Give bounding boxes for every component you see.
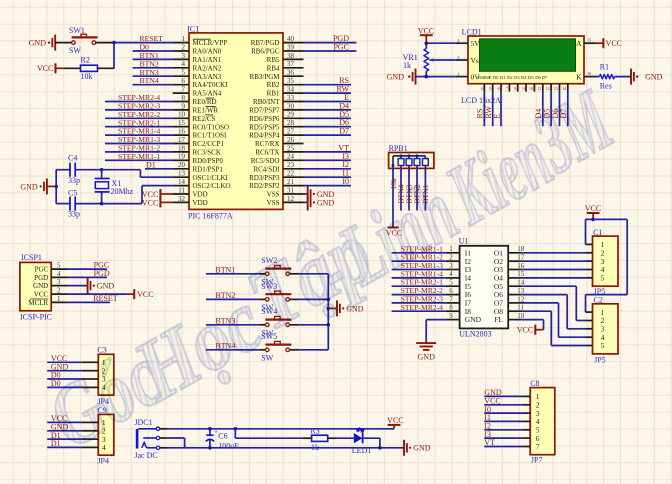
svg-text:3: 3 [449,262,453,270]
svg-text:7: 7 [449,295,453,303]
svg-text:1k: 1k [311,443,319,452]
svg-text:2: 2 [457,38,459,43]
svg-text:RC3/SCK: RC3/SCK [193,149,221,157]
svg-text:15: 15 [517,270,525,278]
svg-text:RB5: RB5 [267,56,280,64]
svg-text:RB3/PGM: RB3/PGM [250,73,281,81]
svg-text:GND: GND [20,182,38,191]
svg-text:VCC: VCC [137,290,153,299]
svg-text:GND: GND [33,282,48,290]
svg-text:JP7: JP7 [531,455,543,464]
svg-text:30: 30 [287,102,295,110]
svg-text:GND: GND [465,315,482,324]
svg-text:RA2/AN2: RA2/AN2 [193,64,222,72]
svg-text:D4: D4 [521,75,527,80]
svg-text:28: 28 [287,119,295,127]
svg-text:RB4: RB4 [267,64,280,72]
svg-text:29: 29 [287,111,295,119]
svg-text:6: 6 [182,77,186,85]
svg-text:RE2/CS: RE2/CS [193,115,216,123]
svg-text:34: 34 [287,86,295,94]
svg-text:36: 36 [287,69,295,77]
svg-text:RA3/AN3: RA3/AN3 [193,73,222,81]
svg-text:D6: D6 [535,75,541,80]
svg-text:D1: D1 [51,439,61,448]
svg-text:Res: Res [600,81,612,90]
svg-text:RC5/SDO: RC5/SDO [251,157,280,165]
svg-text:2: 2 [182,43,186,51]
svg-text:22: 22 [287,170,295,178]
svg-text:33p: 33p [68,210,80,219]
svg-text:E: E [492,114,501,119]
svg-text:E: E [489,75,492,80]
svg-text:100uF: 100uF [218,442,239,451]
svg-text:RB1: RB1 [267,90,280,98]
svg-text:1: 1 [57,295,61,303]
svg-text:11: 11 [537,86,541,91]
svg-text:GND: GND [413,444,431,453]
svg-text:R2: R2 [81,56,90,65]
svg-text:C4: C4 [68,154,77,163]
svg-text:20: 20 [178,161,186,169]
svg-text:RB6/PGC: RB6/PGC [251,48,280,56]
svg-text:RB0/INT: RB0/INT [253,98,280,106]
svg-text:VCC: VCC [517,326,533,335]
svg-text:1k: 1k [403,61,411,70]
svg-text:I0: I0 [342,177,349,186]
svg-text:FL: FL [494,315,503,324]
svg-text:33p: 33p [68,176,80,185]
svg-text:C6: C6 [218,432,227,441]
svg-text:12: 12 [287,195,295,203]
svg-text:RA1/AN1: RA1/AN1 [193,56,222,64]
svg-text:RC0/T1OSO: RC0/T1OSO [193,123,230,131]
svg-text:31: 31 [287,186,295,194]
svg-text:3: 3 [182,52,186,60]
svg-text:RA0/AN0: RA0/AN0 [193,48,222,56]
svg-text:C2: C2 [594,296,603,305]
svg-text:RD0/PSP0: RD0/PSP0 [193,157,224,165]
svg-text:IC1: IC1 [187,24,199,33]
svg-text:GND: GND [29,39,47,48]
svg-text:1: 1 [457,71,459,76]
svg-text:RD2/PSP2: RD2/PSP2 [249,182,280,190]
svg-text:24: 24 [287,153,295,161]
svg-text:35: 35 [287,77,295,85]
svg-text:A: A [576,39,582,48]
svg-text:MCLR: MCLR [28,299,48,307]
svg-text:5: 5 [601,341,605,350]
svg-text:39: 39 [287,43,295,51]
svg-text:JP5: JP5 [594,355,606,364]
svg-text:D1: D1 [146,160,156,169]
svg-text:5: 5 [489,86,491,91]
svg-text:GND: GND [387,73,405,82]
svg-text:RE0/RD: RE0/RD [193,98,217,106]
svg-text:JP4: JP4 [97,456,109,465]
svg-text:14: 14 [178,178,186,186]
svg-text:5V: 5V [471,39,481,48]
svg-text:PIC 16F877A: PIC 16F877A [188,211,233,220]
svg-text:5: 5 [182,69,186,77]
svg-text:19: 19 [178,153,186,161]
svg-text:9: 9 [449,312,453,320]
svg-text:10: 10 [529,86,533,91]
svg-text:VDD: VDD [193,199,208,207]
svg-text:18: 18 [178,144,186,152]
svg-text:26: 26 [287,136,295,144]
svg-text:OSC1/CLKI: OSC1/CLKI [193,174,229,182]
svg-text:5: 5 [57,262,61,270]
svg-text:3: 3 [57,278,61,286]
svg-text:ICSP1: ICSP1 [21,253,42,262]
svg-text:VCC: VCC [142,198,158,207]
svg-text:RC4/SDI: RC4/SDI [253,165,280,173]
svg-text:37: 37 [287,60,295,68]
svg-text:23: 23 [287,161,295,169]
svg-text:RC7/RX: RC7/RX [255,140,280,148]
svg-text:RESET: RESET [93,294,118,303]
svg-text:RPB1: RPB1 [389,144,408,153]
svg-text:STEP-MR2-4: STEP-MR2-4 [401,303,443,312]
svg-text:SW1: SW1 [69,26,85,35]
svg-text:C8: C8 [530,379,539,388]
svg-text:13: 13 [517,287,525,295]
svg-text:LED1: LED1 [352,446,372,455]
svg-text:VSS: VSS [267,199,280,207]
svg-text:RC6/TX: RC6/TX [255,149,279,157]
svg-text:27: 27 [287,128,295,136]
svg-text:ULN2803: ULN2803 [459,329,491,338]
svg-text:10k: 10k [81,72,93,81]
svg-text:11: 11 [178,186,185,194]
svg-text:RD1/PSP1: RD1/PSP1 [193,165,224,173]
svg-text:R1: R1 [600,63,609,72]
svg-text:ICSP-PIC: ICSP-PIC [20,313,52,322]
svg-text:17: 17 [178,136,186,144]
svg-text:C1: C1 [593,228,602,237]
svg-text:6: 6 [449,287,453,295]
svg-text:32: 32 [178,195,186,203]
svg-text:2: 2 [57,287,61,295]
svg-text:LCD1: LCD1 [462,28,482,37]
svg-text:D7: D7 [339,127,349,136]
svg-text:D0: D0 [493,75,499,80]
svg-text:VSS: VSS [267,191,280,199]
svg-text:LCD 16x2A: LCD 16x2A [461,96,501,105]
svg-text:Jac DC: Jac DC [134,451,157,460]
svg-text:7: 7 [182,86,186,94]
svg-text:RE1/WR: RE1/WR [193,107,219,115]
svg-text:15: 15 [178,119,186,127]
svg-text:RA5/AN4: RA5/AN4 [193,90,222,98]
svg-text:PGD: PGD [34,274,48,282]
svg-text:7: 7 [536,442,540,451]
svg-text:BTN4: BTN4 [140,76,159,85]
svg-text:RB7/PGD: RB7/PGD [251,39,280,47]
svg-text:5: 5 [449,279,453,287]
svg-text:9: 9 [182,102,186,110]
svg-text:RD6/PSP6: RD6/PSP6 [249,115,280,123]
svg-text:VCC: VCC [37,64,53,73]
svg-text:RB2: RB2 [267,81,280,89]
svg-text:25: 25 [287,144,295,152]
svg-text:38: 38 [287,52,295,60]
svg-text:VCC: VCC [585,204,601,213]
svg-text:VCC: VCC [418,26,434,35]
svg-text:C5: C5 [68,189,77,198]
svg-text:VCC: VCC [606,39,622,48]
svg-text:RC2/CCP1: RC2/CCP1 [193,140,225,148]
svg-text:21: 21 [287,178,295,186]
svg-text:4: 4 [182,60,186,68]
svg-text:GND: GND [645,73,663,82]
svg-text:8: 8 [182,94,186,102]
svg-text:RD4/PSP4: RD4/PSP4 [249,132,280,140]
svg-text:OSC2/CLKO: OSC2/CLKO [193,182,231,190]
svg-text:RC1/T1OSI: RC1/T1OSI [193,132,228,140]
svg-text:8: 8 [514,86,516,91]
svg-text:D2: D2 [507,75,513,80]
svg-text:GND: GND [418,352,436,361]
svg-text:8: 8 [449,304,453,312]
svg-text:GND: GND [317,198,335,207]
svg-text:13: 13 [178,170,186,178]
svg-text:16: 16 [587,71,591,76]
svg-text:PGD: PGD [94,269,110,278]
svg-text:4: 4 [449,270,453,278]
svg-text:4: 4 [57,270,61,278]
svg-text:1: 1 [182,35,186,43]
svg-text:D1: D1 [500,75,506,80]
svg-text:16: 16 [178,128,186,136]
svg-text:10: 10 [178,111,186,119]
svg-text:VDD: VDD [193,191,208,199]
svg-text:VCC: VCC [387,416,403,425]
svg-text:GND: GND [97,282,115,291]
svg-text:PGC: PGC [35,266,49,274]
svg-text:SW: SW [69,46,81,55]
svg-text:VCC: VCC [34,291,49,299]
svg-text:PGC: PGC [333,43,349,52]
svg-text:5: 5 [601,274,605,283]
svg-text:MCLR/VPP: MCLR/VPP [193,39,228,47]
svg-text:D7: D7 [542,75,548,80]
svg-text:20Mhz: 20Mhz [111,187,134,196]
svg-text:VT: VT [484,438,495,447]
svg-text:40: 40 [287,35,295,43]
svg-text:RD7/PSP7: RD7/PSP7 [249,107,280,115]
svg-text:15: 15 [587,37,591,42]
svg-text:R3: R3 [310,427,319,436]
svg-text:D5: D5 [528,75,534,80]
svg-text:3: 3 [457,55,459,60]
svg-text:RD3/PSP3: RD3/PSP3 [249,174,280,182]
svg-text:D3: D3 [514,75,520,80]
svg-text:Vs: Vs [471,56,479,65]
svg-text:RD5/PSP5: RD5/PSP5 [249,123,280,131]
svg-text:7: 7 [506,86,508,91]
svg-text:RA4/T0CKI: RA4/T0CKI [193,81,229,89]
svg-text:33: 33 [287,94,295,102]
svg-text:6: 6 [498,86,500,91]
svg-text:9: 9 [523,86,525,91]
